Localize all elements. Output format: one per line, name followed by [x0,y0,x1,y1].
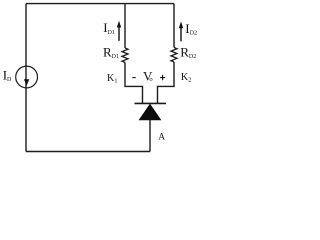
svg-text:A: A [158,132,165,142]
diode anode triangle [139,104,162,121]
wire anode vertical [149,120,151,152]
wire bottom horizontal [26,151,150,153]
svg-text:ID1: ID1 [103,20,115,36]
wire branch D2 upper [173,4,175,48]
svg-text:Vo: Vo [143,68,153,83]
current source arrow head [24,79,29,85]
current arrow ID1 [117,21,121,41]
svg-text:K1: K1 [107,73,117,85]
svg-text:ID2: ID2 [185,21,197,37]
svg-text:ID: ID [3,68,12,84]
wire branch D1 lower elbow [125,62,143,103]
label Vo plus polarity sign [160,75,165,80]
diode cathode bar [135,102,167,104]
resistor RD2 [171,48,177,62]
wire branch D2 lower elbow [158,62,175,103]
current source ID circle [16,66,38,88]
svg-text:RD1: RD1 [103,45,119,61]
label Vo minus polarity sign [132,77,135,79]
wire top horizontal [26,3,174,5]
resistor RD1 [122,48,128,62]
svg-text:K2: K2 [181,72,191,84]
wire left vertical [25,4,27,152]
wire branch D1 upper [124,4,126,48]
svg-text:RD2: RD2 [180,45,196,61]
current arrow ID2 [179,21,183,41]
